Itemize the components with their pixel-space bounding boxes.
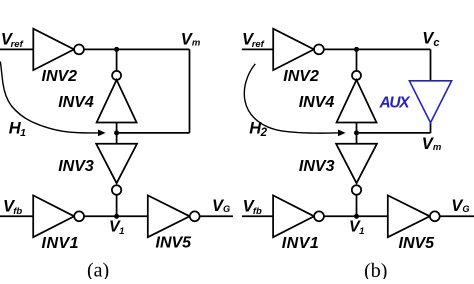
svg-text:INV4: INV4: [299, 94, 335, 111]
wire Vc vertical to AUX (b): [430, 49, 432, 80]
wire INV3 output to V1 (b): [356, 195, 358, 217]
svg-text:INV2: INV2: [42, 68, 78, 85]
wire node to INV4 bubble (a): [116, 49, 118, 71]
svg-text:INV1: INV1: [282, 235, 320, 252]
wire Vref input (a): [0, 48, 33, 50]
node V1 (a): [114, 214, 119, 219]
svg-text:INV3: INV3: [299, 158, 335, 175]
bubble INV3 (b): [352, 185, 361, 194]
wire Vm vertical right side (a): [189, 49, 191, 132]
feedback arrow H1 (a): [0, 62, 105, 137]
bubble INV5 (b): [430, 211, 440, 221]
node V1 (b): [354, 214, 359, 219]
wire INV4 to INV3 (a): [116, 123, 118, 144]
wire V1 node (b): [324, 215, 388, 217]
node at INV2 output (a): [114, 47, 119, 52]
feedback arrow H2 (b): [244, 64, 345, 137]
bubble INV4 (b): [352, 71, 361, 80]
wire AUX output to Vm node (b): [430, 123, 432, 133]
inverter INV4 (b): [337, 80, 377, 123]
wire INV2 output to Vc (b): [324, 48, 431, 50]
bubble INV3 (a): [112, 185, 121, 194]
wire Vref input (b): [242, 48, 273, 50]
inverter INV5 (a): [148, 195, 190, 237]
wire INV3 output to V1 (a): [116, 195, 118, 217]
inverter INV2 (a): [33, 29, 74, 70]
inverter INV1 (b): [273, 195, 314, 237]
bubble INV2 (b): [314, 45, 324, 55]
inverter INV4 (a): [97, 80, 137, 123]
bubble INV2 (a): [74, 45, 84, 55]
svg-text:(a): (a): [87, 259, 109, 279]
wire INV2 output to Vm (a): [84, 48, 190, 50]
wire V1 node (a): [84, 215, 148, 217]
bubble INV4 (a): [112, 71, 121, 80]
svg-text:INV5: INV5: [156, 235, 193, 252]
inverter AUX (b) blue: [409, 81, 451, 123]
svg-text:INV4: INV4: [58, 94, 94, 111]
wire node to INV4 bubble (b): [356, 49, 358, 71]
svg-text:INV1: INV1: [42, 235, 80, 252]
wire Vfb input (a): [0, 215, 33, 217]
inverter INV3 (b): [336, 144, 377, 183]
svg-text:INV3: INV3: [58, 158, 94, 175]
wire feedback horizontal (b): [357, 132, 431, 134]
bubble INV1 (b): [314, 211, 324, 221]
inverter INV5 (b): [388, 195, 430, 237]
svg-text:INV2: INV2: [283, 68, 319, 85]
svg-text:INV5: INV5: [399, 235, 436, 252]
node at INV4/INV3 junction (b): [354, 130, 359, 135]
wire INV4 to INV3 (b): [356, 123, 358, 144]
inverter INV1 (a): [33, 195, 74, 237]
wire feedback horizontal (a): [117, 132, 190, 134]
inverter INV2 (b): [273, 29, 314, 70]
inverter INV3 (a): [96, 144, 137, 183]
svg-text:AUX: AUX: [379, 94, 412, 111]
bubble INV5 (a): [190, 211, 200, 221]
svg-text:(b): (b): [364, 260, 387, 279]
wire VG output (b): [440, 215, 474, 217]
wire VG output (a): [200, 215, 233, 217]
node at INV4/INV3 junction (a): [114, 130, 119, 135]
bubble INV1 (a): [74, 211, 84, 221]
node at INV2 output (b): [354, 47, 359, 52]
wire Vfb input (b): [242, 215, 273, 217]
